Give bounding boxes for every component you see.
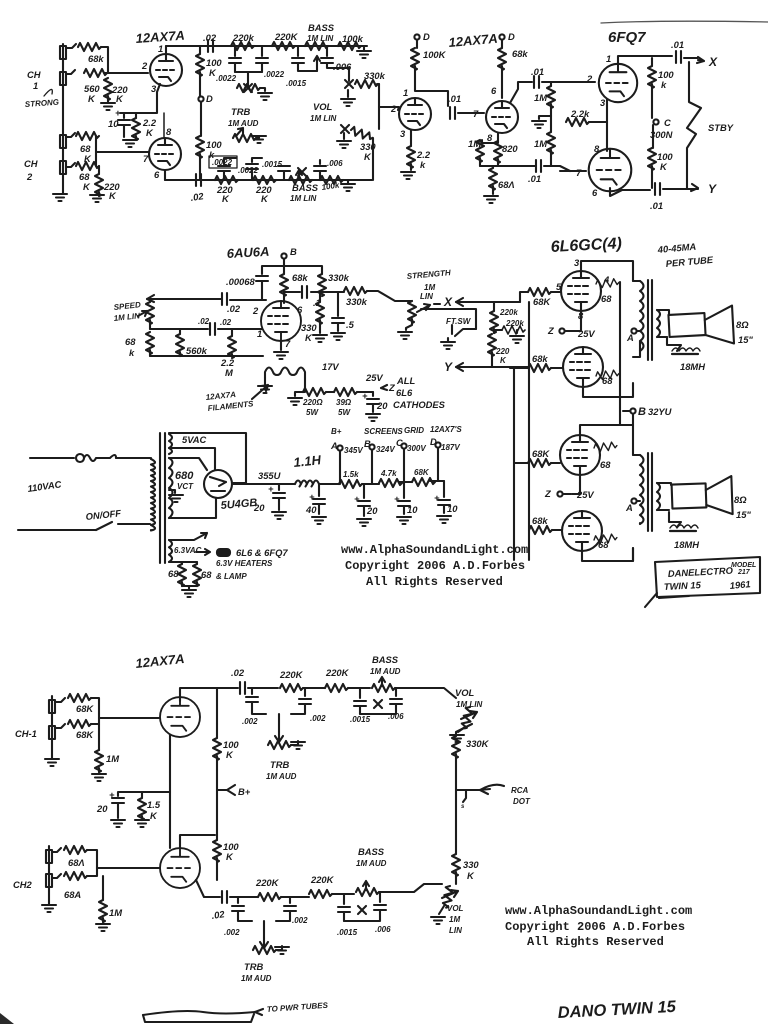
screen res s3	[594, 442, 618, 452]
svg-text:DANELECTRO: DANELECTRO	[668, 565, 734, 579]
svg-text:68: 68	[600, 459, 611, 470]
TRB wiper arrow c2	[260, 938, 268, 948]
svg-text:www.AlphaSoundandLight.com: www.AlphaSoundandLight.com	[505, 904, 692, 918]
X arrow	[697, 57, 704, 63]
svg-text:Copyright 2006 A.D.Forbes: Copyright 2006 A.D.Forbes	[505, 920, 685, 934]
resistor 220 K y	[488, 334, 496, 356]
svg-text:.006: .006	[327, 159, 343, 168]
ground top rail end	[363, 46, 365, 50]
svg-text:330k: 330k	[328, 272, 350, 283]
svg-text:10: 10	[447, 503, 458, 514]
resistor 220ohm	[303, 388, 326, 396]
right column wire	[378, 84, 380, 129]
node B ps	[369, 444, 374, 449]
svg-text:All Rights Reserved: All Rights Reserved	[366, 575, 503, 589]
svg-text:1M AUD: 1M AUD	[356, 859, 387, 868]
svg-text:.006: .006	[333, 61, 352, 72]
svg-text:12AX7'S: 12AX7'S	[430, 425, 462, 434]
svg-text:15": 15"	[738, 334, 753, 345]
pot 330k top X	[345, 80, 353, 88]
wire to tube1 grid	[551, 291, 561, 293]
svg-text:68K: 68K	[76, 729, 94, 740]
OT1 secondary	[657, 310, 660, 337]
svg-text:1M AUD: 1M AUD	[228, 119, 259, 128]
svg-text:2: 2	[390, 103, 397, 114]
svg-text:7: 7	[143, 153, 149, 164]
svg-text:5W: 5W	[306, 408, 319, 417]
TRB wiper arrow c	[275, 732, 283, 742]
svg-text:25V: 25V	[577, 328, 595, 339]
grid V3b wire	[560, 170, 586, 172]
svg-text:220k: 220k	[499, 308, 518, 317]
resistor 220k a	[490, 311, 498, 333]
resistor 100k bottom	[320, 176, 343, 184]
resistor 1.5k	[339, 480, 362, 488]
resistor 68k ch1	[78, 43, 101, 51]
wire bass to right	[379, 884, 442, 892]
svg-text:220Ω: 220Ω	[302, 398, 323, 407]
svg-text:.0022: .0022	[216, 74, 237, 83]
svg-text:4.7k: 4.7k	[380, 469, 397, 478]
pot TRB upper	[237, 84, 260, 92]
svg-text:7: 7	[473, 108, 479, 119]
svg-text:5U4GB: 5U4GB	[220, 497, 258, 512]
tube 6L6 no4	[562, 511, 602, 551]
resistor 220K top2	[272, 42, 295, 50]
resistor 100k upper right	[651, 58, 653, 66]
cap .01 lower coupling	[536, 160, 541, 172]
plate loop top	[581, 261, 633, 281]
svg-text:1M: 1M	[109, 907, 122, 918]
svg-text:217: 217	[737, 569, 751, 576]
svg-text:VOL: VOL	[455, 687, 475, 698]
ground cap20	[366, 414, 380, 421]
bottom wire stage2	[480, 165, 535, 167]
svg-text:+: +	[362, 390, 368, 401]
svg-text:A: A	[626, 332, 634, 343]
resistor 1.5K c	[141, 792, 143, 798]
ground 330k pot	[347, 90, 349, 97]
cathode V2a	[410, 130, 412, 146]
screen bus 2	[620, 411, 633, 561]
resistor 68K g1	[528, 288, 551, 296]
svg-text:17V: 17V	[322, 361, 339, 372]
svg-text:MODEL: MODEL	[731, 562, 756, 569]
resistor 100 K mid c	[216, 688, 218, 724]
resistor 220k top	[231, 42, 254, 50]
cap .1	[302, 286, 307, 298]
heater legs	[264, 378, 266, 384]
svg-text:6: 6	[592, 187, 598, 198]
cap 20 cathode	[372, 392, 374, 396]
svg-text:.5: .5	[346, 319, 355, 330]
wire X branch down	[493, 302, 495, 311]
tube V2a	[399, 98, 431, 130]
ground .5	[331, 333, 345, 340]
svg-text:6.3VAC: 6.3VAC	[174, 546, 202, 555]
node B	[281, 253, 286, 258]
plate wire V2b up right	[510, 82, 532, 103]
svg-text:LIN: LIN	[449, 926, 462, 935]
svg-text:K: K	[500, 356, 507, 365]
svg-text:1M AUD: 1M AUD	[241, 974, 272, 983]
cap .0015 c	[251, 170, 253, 180]
svg-text:K: K	[146, 127, 154, 138]
svg-text:CH: CH	[27, 69, 41, 80]
cap .0022 c	[223, 172, 225, 180]
resistor 560k trem	[179, 329, 181, 334]
svg-text:1M LIN: 1M LIN	[290, 194, 316, 203]
bottom rail	[165, 179, 372, 181]
svg-text:560k: 560k	[186, 345, 208, 356]
filter cap 10a	[403, 482, 405, 498]
STRENGTH wiper	[417, 304, 430, 312]
svg-text:330: 330	[463, 859, 479, 870]
tube V3b	[589, 149, 632, 192]
svg-text:VCT: VCT	[177, 482, 194, 491]
TRB ground c	[291, 741, 298, 745]
svg-text:1M: 1M	[534, 138, 547, 149]
svg-text:www.AlphaSoundandLight.com: www.AlphaSoundandLight.com	[341, 543, 528, 557]
cap .0015 c2	[343, 894, 345, 904]
jack J2	[60, 72, 66, 85]
svg-text:68Λ: 68Λ	[498, 179, 515, 190]
svg-text:100k: 100k	[321, 181, 340, 192]
cap .02 row2	[210, 323, 215, 335]
svg-text:.0015: .0015	[262, 160, 283, 169]
svg-text:+: +	[109, 789, 115, 800]
coil 18MH 1	[672, 348, 700, 351]
svg-text:2.2k: 2.2k	[570, 108, 590, 119]
switch ON/OFF	[96, 522, 150, 530]
svg-text:+: +	[394, 493, 400, 504]
grounds cathode c	[111, 820, 125, 827]
svg-text:Y: Y	[708, 182, 717, 196]
svg-text:68: 68	[201, 569, 212, 580]
svg-text:12AX7A: 12AX7A	[448, 31, 498, 50]
B+ takeoff	[233, 483, 295, 485]
TRB pot c	[268, 741, 291, 749]
svg-text:2: 2	[586, 73, 593, 84]
Z arrow	[381, 385, 387, 390]
plate wire V4b	[180, 835, 215, 847]
wire ch1 lower + grid wire	[66, 70, 75, 74]
cap .02 row1	[222, 293, 227, 305]
resistor 560K vertical	[104, 78, 112, 100]
svg-text:68: 68	[168, 568, 179, 579]
danelectro box	[655, 557, 760, 597]
svg-text:220K: 220K	[274, 31, 299, 42]
svg-text:820: 820	[502, 143, 518, 154]
svg-text:1.5k: 1.5k	[343, 470, 359, 479]
cap .006 c2	[379, 892, 381, 902]
svg-text:X: X	[708, 55, 718, 69]
cathode V1b to rail	[164, 170, 166, 180]
svg-text:+: +	[268, 483, 274, 494]
svg-text:12AX7A: 12AX7A	[135, 651, 185, 671]
ch2 lower wire	[52, 874, 61, 878]
svg-text:6L6GC(4): 6L6GC(4)	[550, 235, 622, 256]
svg-text:.0022: .0022	[264, 70, 285, 79]
svg-text:12AX7A: 12AX7A	[205, 390, 236, 402]
secondary HV winding	[169, 458, 173, 518]
svg-text:TO PWR TUBES: TO PWR TUBES	[267, 1001, 329, 1014]
svg-text:TRB: TRB	[244, 961, 263, 972]
TRB network c2	[263, 921, 265, 938]
svg-text:680: 680	[175, 470, 194, 482]
ch2 upper wire	[52, 848, 61, 852]
jack J8	[46, 874, 52, 887]
pot SPEED	[149, 299, 151, 302]
svg-text:1M AUD: 1M AUD	[266, 772, 297, 781]
cap .01 coupling	[450, 107, 455, 119]
output transformer 1 core	[648, 280, 652, 360]
resistor 68k driver	[498, 48, 506, 70]
svg-text:324V: 324V	[376, 445, 395, 454]
cap .01 X	[676, 51, 681, 63]
svg-text:6: 6	[154, 169, 160, 180]
bottom bus trem	[150, 355, 263, 357]
cap .00068	[256, 276, 268, 281]
svg-text:.01: .01	[448, 93, 461, 104]
wire C1 cathode to C2 plate	[606, 99, 608, 151]
svg-text:68k: 68k	[532, 515, 548, 526]
box lower stub	[645, 593, 689, 607]
output tap to stage2	[379, 106, 395, 108]
svg-text:.02: .02	[211, 908, 226, 921]
OT2 primary	[640, 455, 644, 524]
svg-text:68K: 68K	[414, 468, 430, 477]
svg-text:D: D	[423, 31, 430, 42]
svg-text:A: A	[330, 440, 338, 451]
svg-text:1: 1	[33, 80, 38, 91]
VOL c ground	[458, 727, 465, 732]
screen bus	[619, 282, 621, 408]
cap .006 b	[319, 172, 321, 180]
ground cathode	[123, 140, 137, 147]
wire to pwr tubes	[143, 1011, 255, 1015]
cap .006 top	[326, 46, 328, 56]
speaker 2 wire low	[669, 512, 681, 527]
svg-text:6L6 & 6FQ7: 6L6 & 6FQ7	[236, 547, 288, 558]
SPEED wiper	[138, 311, 147, 316]
svg-text:SPEED: SPEED	[113, 300, 141, 312]
primary connects	[150, 458, 152, 530]
svg-text:C: C	[396, 437, 403, 448]
svg-text:5W: 5W	[338, 408, 351, 417]
OT1 sec wires	[657, 310, 669, 337]
wire to VOL c	[395, 688, 456, 698]
svg-text:100K: 100K	[423, 49, 447, 60]
plate wire V1a to top rail	[165, 46, 167, 54]
svg-text:K: K	[660, 161, 668, 172]
svg-text:FT.SW: FT.SW	[446, 317, 472, 326]
heater arrow up	[176, 533, 207, 540]
ground 220k	[510, 336, 524, 343]
wire V2a plate up	[163, 113, 165, 137]
HV wires to rectifier	[169, 458, 216, 518]
rectifier 5U4GB	[204, 470, 232, 498]
svg-text:300V: 300V	[407, 444, 426, 453]
svg-text:220K: 220K	[310, 874, 335, 885]
cap .01 Y	[655, 183, 660, 195]
OT1 primary	[640, 281, 644, 351]
svg-text:K: K	[88, 93, 96, 104]
node A ot1	[631, 328, 636, 333]
plate wire y292	[284, 291, 344, 293]
resistor 2.2k mid	[566, 118, 589, 126]
svg-text:+: +	[354, 493, 360, 504]
svg-text:C: C	[664, 117, 671, 128]
svg-text:68k: 68k	[292, 272, 308, 283]
cap .002 c4	[289, 897, 291, 903]
svg-text:68Λ: 68Λ	[68, 857, 85, 868]
resistor 220K c4	[309, 890, 332, 898]
filter cap 20b	[363, 484, 365, 498]
cap .002 c3	[237, 897, 239, 903]
X feed wire	[456, 301, 520, 303]
pot BASS bottom	[289, 176, 312, 184]
svg-text:1M AUD: 1M AUD	[370, 667, 401, 676]
svg-text:110VAC: 110VAC	[27, 478, 62, 494]
svg-text:.01: .01	[528, 173, 541, 184]
cap .01 upper coupling	[534, 76, 539, 88]
svg-text:GRID: GRID	[404, 426, 424, 435]
cap .002 c2	[304, 688, 306, 696]
svg-text:Z: Z	[547, 325, 555, 336]
svg-text:Copyright 2006 A.D.Forbes: Copyright 2006 A.D.Forbes	[345, 559, 525, 573]
svg-text:1M: 1M	[468, 138, 481, 149]
jack column ch-1	[51, 696, 53, 758]
speaker 1 wire low	[667, 337, 681, 351]
svg-text:BASS: BASS	[308, 22, 335, 33]
svg-text:1M LIN: 1M LIN	[310, 114, 336, 123]
node A ps	[337, 445, 342, 450]
resistor 330k trem	[318, 274, 326, 296]
node D	[198, 96, 203, 101]
svg-text:18MH: 18MH	[680, 361, 705, 372]
resistor 100K driver	[411, 48, 419, 70]
cap 20 c	[112, 798, 124, 803]
arrowhead pwr	[255, 1009, 263, 1015]
resistor 68ohm	[492, 166, 494, 168]
svg-text:.006: .006	[375, 925, 391, 934]
primary wire upper cont	[116, 457, 150, 459]
jack J7	[46, 850, 52, 863]
B+ arrow c	[217, 785, 235, 795]
svg-text:5: 5	[556, 281, 562, 292]
svg-text:.002: .002	[310, 714, 326, 723]
grid wire	[395, 107, 399, 110]
pot VOL c2	[442, 885, 454, 908]
cap X pot mark	[298, 168, 306, 176]
bottom rail c	[196, 880, 220, 897]
svg-text:TRB: TRB	[270, 759, 289, 770]
svg-text:All Rights Reserved: All Rights Reserved	[527, 935, 664, 949]
speaker 2	[672, 483, 707, 508]
plate wire V4a	[180, 688, 238, 701]
node D ps	[435, 442, 440, 447]
cap .0022 a	[234, 46, 236, 56]
svg-text:25V: 25V	[365, 372, 383, 383]
svg-text:220: 220	[495, 347, 510, 356]
ground jacks ch2	[42, 905, 56, 912]
svg-text:.02: .02	[203, 32, 217, 43]
svg-text:B: B	[638, 406, 646, 418]
resistor 220K bottom2	[253, 176, 276, 184]
wire ch1 upper	[66, 44, 76, 48]
cap .02 top	[208, 40, 213, 52]
svg-text:.02: .02	[231, 667, 245, 678]
svg-text:CATHODES: CATHODES	[393, 399, 446, 410]
resistor 1M b	[547, 132, 555, 154]
input jack column CH1/CH2	[62, 44, 64, 193]
resistor 68K g3	[528, 459, 551, 467]
svg-text:1M: 1M	[449, 915, 460, 924]
svg-text:100k: 100k	[342, 33, 364, 44]
Y feed wire	[456, 366, 528, 368]
cathode V4a wire	[169, 735, 171, 848]
svg-text:ON/OFF: ON/OFF	[85, 507, 122, 522]
svg-text:32YU: 32YU	[648, 406, 672, 417]
svg-text:RCA: RCA	[511, 786, 529, 795]
wire down right col	[455, 790, 457, 854]
rca ground stub	[463, 790, 466, 802]
scan corner wedge	[0, 1013, 14, 1024]
plate loop bottom	[583, 383, 633, 397]
5V loop outer	[169, 433, 246, 483]
svg-text:2: 2	[252, 305, 259, 316]
RCA arrow	[456, 785, 504, 794]
svg-text:k: k	[420, 159, 426, 170]
ground 68ohm	[484, 196, 498, 203]
jack column ch2	[48, 846, 50, 904]
svg-text:Y: Y	[444, 360, 453, 374]
ground screen	[313, 335, 327, 342]
svg-text:& LAMP: & LAMP	[216, 572, 247, 581]
svg-text:K: K	[150, 810, 158, 821]
tube 6L6 no2	[563, 347, 603, 387]
plate loop bottom q4	[582, 548, 633, 561]
svg-text:.002: .002	[224, 928, 240, 937]
resistor 39ohm	[334, 388, 357, 396]
wire vol to 330K	[456, 724, 472, 736]
node D2	[414, 34, 419, 39]
Y wire	[610, 188, 650, 196]
TRB resistor	[233, 134, 256, 142]
ground TRB upper	[260, 88, 265, 91]
VOL1 resistor	[350, 126, 374, 141]
filter cap 40	[318, 484, 320, 496]
svg-text:TWIN 15: TWIN 15	[664, 579, 702, 592]
cathode network V2b	[482, 133, 498, 143]
svg-text:1M: 1M	[534, 92, 547, 103]
svg-text:40: 40	[305, 504, 317, 515]
svg-text:.0015: .0015	[350, 715, 371, 724]
svg-text:345V: 345V	[344, 446, 363, 455]
stub bottom	[143, 1014, 254, 1022]
resistor 2.2K cathode	[135, 113, 137, 118]
resistor 220K c2	[325, 684, 348, 692]
plate bus c	[216, 770, 218, 880]
VOL c wiper	[461, 711, 477, 719]
svg-text:10: 10	[108, 118, 119, 129]
TRB ground c2	[276, 946, 282, 950]
ground first cap	[272, 512, 286, 519]
svg-text:68K: 68K	[76, 703, 94, 714]
svg-text:1M LIN: 1M LIN	[113, 311, 140, 323]
wire D2 down	[416, 40, 418, 48]
